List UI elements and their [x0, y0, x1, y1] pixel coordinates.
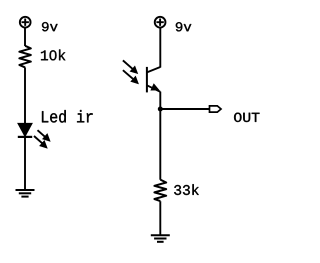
- wire resistor to ground: [159, 201, 161, 235]
- LED emission arrow 1: [38, 130, 50, 141]
- wire LED to ground: [24, 137, 26, 190]
- LED anode triangle: [19, 124, 32, 136]
- wire resistor to LED: [24, 67, 26, 124]
- wire emitter to resistor: [159, 92, 161, 180]
- LED "Led ir": [18, 124, 32, 137]
- label 9v right: [176, 22, 192, 31]
- label 9v left: [42, 22, 58, 31]
- node OUT junction dot: [158, 107, 163, 112]
- transistor base bar: [146, 67, 148, 93]
- resistor 33k: [154, 180, 166, 202]
- label 10k: [41, 49, 65, 60]
- label 33k: [174, 184, 199, 195]
- transistor emitter arrowhead: [152, 85, 159, 90]
- power symbol +9v right: [155, 17, 166, 28]
- wire node to OUT port: [160, 108, 209, 110]
- label Led ir: [42, 110, 93, 123]
- photo arrow 1: [123, 60, 137, 73]
- label OUT: [234, 113, 259, 122]
- ground left: [16, 190, 35, 197]
- wire 9v to resistor: [24, 28, 26, 47]
- output port OUT: [210, 106, 222, 112]
- transistor collector lead: [147, 67, 160, 72]
- LED emission arrow 2: [34, 136, 47, 148]
- photo arrow 2: [123, 70, 138, 83]
- power symbol +9v left: [20, 17, 31, 28]
- LED cathode bar: [18, 136, 32, 138]
- resistor 10k: [19, 46, 31, 68]
- ground right: [151, 235, 170, 242]
- wire 9v to collector: [159, 28, 161, 68]
- transistor emitter lead: [147, 85, 160, 92]
- phototransistor NPN: [147, 67, 160, 93]
